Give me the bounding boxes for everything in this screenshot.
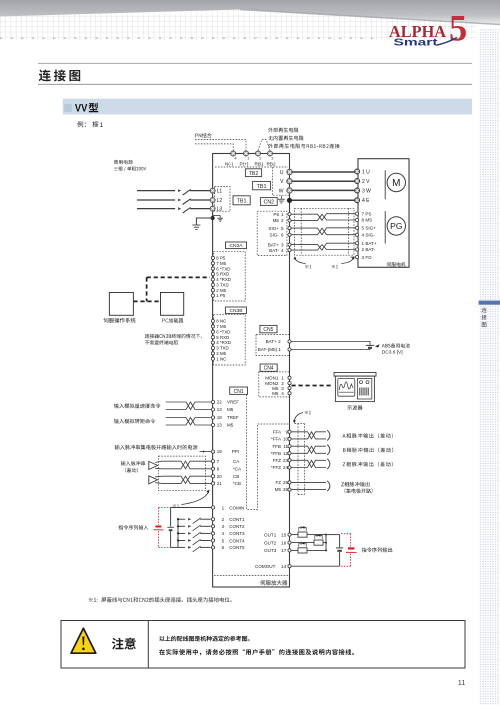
wire U to motor [292, 171, 354, 173]
servo amplifier block outline [213, 154, 290, 588]
brace Z-phase [327, 459, 330, 469]
contact switch CONT4 [178, 540, 185, 542]
svg-text:SIG+: SIG+ [268, 226, 279, 231]
mains label 商用电源 [114, 160, 133, 165]
CN3B pin 2 M5 [211, 352, 214, 355]
svg-text:BAT-(M5) 1: BAT-(M5) 1 [258, 347, 282, 352]
motor encoder pin 1 BAT+ [356, 242, 359, 245]
dashed leader PN to N(-) [195, 144, 233, 151]
CN1 pin 5 CONT4 [211, 539, 214, 542]
svg-text:4: 4 [222, 531, 225, 536]
dashed box around L1 L2 L3 terminals [215, 187, 230, 212]
CN1 label box [230, 387, 248, 394]
note ref 1 (pulse input shield) [173, 504, 179, 507]
svg-text:FFB: FFB [273, 444, 282, 449]
svg-text:7 PS: 7 PS [362, 211, 372, 216]
label PN结合 [196, 133, 212, 138]
svg-text:FFA: FFA [273, 429, 281, 434]
CN3A dashed box [214, 251, 246, 301]
example label 框1 [77, 121, 98, 127]
encoder PG circle [387, 217, 405, 235]
CN1 pin 1 COMIN [211, 506, 214, 509]
svg-text:BAT+ 2: BAT+ 2 [266, 339, 282, 344]
wire E to motor [292, 199, 355, 201]
svg-text:*FFB: *FFB [271, 451, 281, 456]
svg-text:FFZ: FFZ [273, 458, 281, 463]
CN3B pin 7 M5 [211, 325, 214, 328]
svg-text:CONT1: CONT1 [229, 517, 245, 522]
bracket line (motor group) [384, 170, 386, 199]
twisted pair TREF/M5 [166, 418, 212, 426]
svg-text:8 NC: 8 NC [216, 319, 226, 324]
differential driver CB [149, 476, 158, 484]
svg-text:3: 3 [281, 242, 284, 247]
twisted pair FFA/*FFA [291, 432, 326, 439]
svg-text:5: 5 [222, 538, 225, 543]
motor encoder pin 2 BAT- [356, 248, 359, 251]
svg-text:COMOUT: COMOUT [255, 564, 276, 569]
CN4 dashed box [259, 372, 290, 397]
VV-type heading bar [63, 99, 472, 115]
oscilloscope label 示波器 [347, 405, 362, 410]
CN3B note text [145, 334, 202, 339]
wire OUT3 to bus [307, 549, 326, 551]
CN2 dashed connector box [257, 211, 287, 255]
shield inner dashed line left [300, 208, 302, 255]
CN3A pin 8 P5 [211, 256, 214, 259]
wire W to motor [292, 189, 354, 191]
svg-text:M5: M5 [275, 487, 282, 492]
caution label 注意 [112, 638, 136, 650]
earth junction [211, 216, 215, 220]
terminal L1 [210, 188, 215, 193]
svg-text:5: 5 [281, 226, 284, 231]
CN3A pin 2 M5 [211, 289, 214, 292]
ground symbol at E [280, 196, 282, 199]
svg-text:SIG-: SIG- [270, 232, 280, 237]
CN3B pin 4 *RXD [211, 341, 214, 344]
CN1 pin 20 CB [211, 475, 214, 478]
terminal 2 on TB2 [256, 151, 261, 156]
CN3A pin 5 RXD [211, 272, 214, 275]
CN2-PG twisted pair SIG+/SIG- [291, 228, 355, 235]
svg-text:CN5: CN5 [263, 327, 273, 333]
svg-text:8 MS: 8 MS [362, 218, 373, 223]
svg-text:DC3.6 [V]: DC3.6 [V] [382, 350, 403, 356]
svg-text:TB2: TB2 [249, 171, 259, 177]
CN3B pin 3 TXD [211, 346, 214, 349]
battery symbol [366, 344, 374, 346]
internal battery [167, 526, 174, 528]
caution box [61, 621, 465, 669]
svg-text:COMIN: COMIN [229, 505, 244, 510]
svg-text:4 *RXD: 4 *RXD [216, 340, 231, 345]
CN3A pin 6 *TXD [211, 267, 214, 270]
svg-text:6 *TXD: 6 *TXD [216, 266, 230, 271]
svg-text:L2: L2 [217, 198, 223, 204]
CN3B label box [226, 307, 247, 314]
terminal L2 [210, 198, 215, 203]
COMIN bus [170, 508, 172, 527]
svg-text:TB1: TB1 [237, 199, 247, 205]
svg-text:1 NC: 1 NC [216, 356, 226, 361]
pulse input dashed box [158, 456, 205, 491]
dashed leader PN to P(+) [195, 140, 246, 151]
twisted pair CB/*CB [155, 475, 162, 478]
CN2-PG twisted pair BAT+/BAT- [291, 243, 355, 250]
svg-text:M5: M5 [227, 407, 234, 412]
motor encoder pin 3 FG [356, 256, 359, 259]
svg-text:1: 1 [281, 376, 284, 381]
cable shield dashed box [295, 208, 354, 255]
CN1 pin 22 VREF [211, 400, 214, 403]
svg-text:22: 22 [217, 400, 223, 405]
footnote ※1 [89, 597, 232, 602]
output collector bus [325, 535, 327, 551]
contact switch CONT2 [178, 525, 185, 527]
ground symbol (mains earth) [192, 224, 200, 226]
svg-text:Smart: Smart [394, 37, 439, 49]
brace B-phase [327, 445, 330, 455]
svg-text:4: 4 [281, 391, 284, 396]
CN3A pin 4 *RXD [211, 278, 214, 281]
mains switch wire L3 [137, 208, 175, 210]
battery pointer arrow [375, 344, 380, 347]
CN1 pin 13 M5 [211, 423, 214, 426]
serial cable thick dashed [147, 276, 210, 278]
svg-text:OUT3: OUT3 [264, 548, 277, 553]
svg-text:BAT+: BAT+ [268, 242, 280, 247]
sidebar vertical label 连接图 [482, 308, 487, 313]
monitor cable thick dashed [292, 385, 334, 387]
svg-text:2 M5: 2 M5 [216, 351, 226, 356]
svg-text:1: 1 [281, 212, 284, 217]
servo motor block outline [358, 159, 409, 268]
svg-text:2 M5: 2 M5 [216, 288, 226, 293]
svg-text:CB: CB [233, 474, 239, 479]
external supply (red) [155, 526, 161, 528]
shield inner dashed line right [348, 208, 350, 255]
terminal L3 [210, 206, 215, 211]
svg-text:OUT2: OUT2 [264, 540, 277, 545]
svg-text:RB1: RB1 [255, 161, 265, 166]
brace Z-phase open collector [327, 481, 330, 491]
svg-text:2: 2 [259, 155, 262, 160]
CN1 pin 3 CONT2 [211, 525, 214, 528]
svg-text:L3: L3 [217, 207, 223, 213]
svg-text:4: 4 [281, 248, 284, 253]
contact switch CONT5 [178, 546, 185, 548]
CN2 label box [260, 198, 277, 206]
svg-text:3: 3 [222, 524, 225, 529]
svg-text:16: 16 [281, 540, 287, 545]
motor terminal 2 V [355, 179, 360, 184]
note ref 1 left (shield) [305, 265, 311, 268]
svg-text:13: 13 [217, 423, 223, 428]
contact switch CONT3 [178, 532, 185, 534]
note ref 1 right (shield) [332, 265, 338, 268]
svg-text:2: 2 [222, 517, 225, 522]
motor encoder pin 4 SIG- [356, 233, 359, 236]
label 指令序列输入 [119, 525, 149, 530]
right sidebar dotted strip [479, 28, 500, 705]
svg-text:1 P5: 1 P5 [216, 293, 226, 298]
servo amplifier label 伺服放大器 [260, 580, 287, 585]
label 输入模拟转矩命令 [114, 419, 155, 424]
wire V to motor [292, 180, 354, 182]
CN3A label box [226, 242, 247, 249]
svg-text:PPI: PPI [232, 449, 239, 454]
svg-text:1: 1 [247, 155, 250, 160]
svg-text:1: 1 [222, 505, 225, 510]
wire OUT1 [291, 534, 298, 536]
servo motor label 伺服电机 [387, 262, 406, 266]
PC loader box PC加载器 [161, 293, 184, 316]
CN1 pin 13 M5 [211, 408, 214, 411]
svg-text:*FFA: *FFA [271, 437, 281, 442]
CN1 pin 8 *CA [211, 467, 214, 470]
motor M circle [387, 173, 405, 191]
svg-text:3: 3 [271, 155, 274, 160]
svg-text:7 M5: 7 M5 [216, 324, 226, 329]
motor encoder pin 8 MS [356, 218, 359, 221]
svg-text:PG: PG [390, 221, 402, 231]
svg-text:MON1: MON1 [265, 376, 279, 381]
svg-text:3 FG: 3 FG [362, 255, 373, 260]
svg-text:6 *TXD: 6 *TXD [216, 329, 230, 334]
svg-text:1 BAT+: 1 BAT+ [362, 241, 377, 246]
svg-text:U: U [280, 170, 284, 176]
svg-text:CA: CA [233, 459, 239, 464]
CN3B pin 8 NC [211, 319, 214, 322]
battery label ABS备用电池 [382, 343, 410, 347]
warning triangle [71, 628, 96, 653]
FZ/M5 wires [291, 481, 326, 483]
CONT bus [177, 519, 179, 547]
svg-text:VREF: VREF [227, 400, 239, 405]
svg-text:TB1: TB1 [257, 184, 267, 190]
label A相脉冲输出（差动） [343, 433, 393, 438]
svg-text:W: W [279, 188, 284, 194]
svg-text:CONT3: CONT3 [229, 531, 245, 536]
output load OUT3 [298, 548, 307, 553]
CN1 pin 4 CONT3 [211, 532, 214, 535]
CN3B dashed box [214, 315, 246, 365]
svg-text:3 TXD: 3 TXD [216, 346, 228, 351]
CN1 pin 21 *CB [211, 482, 214, 485]
svg-text:CN2: CN2 [264, 200, 274, 206]
label B相脉冲输出（差动） [343, 448, 393, 453]
CN3B pin 6 *TXD [211, 330, 214, 333]
svg-text:CN3B: CN3B [229, 308, 242, 314]
mains switch wire L1 [137, 190, 175, 192]
motor encoder pin 5 SIG+ [356, 226, 359, 229]
motor terminal 3 W [355, 188, 360, 193]
svg-text:*FFZ: *FFZ [271, 465, 281, 470]
svg-text:17: 17 [281, 548, 287, 553]
CN3B pin 5 RXD [211, 336, 214, 339]
svg-text:M5: M5 [273, 218, 280, 223]
external output supply (red) [348, 547, 354, 549]
svg-text:14: 14 [281, 564, 287, 569]
svg-text:CONT2: CONT2 [229, 524, 245, 529]
mains switch wire L2 [137, 199, 175, 201]
wire OUT2 [291, 542, 314, 544]
CN1 pin 2 CONT1 [211, 518, 214, 521]
terminal 1 on TB2 [244, 151, 249, 156]
note ref 1 (output shield) [305, 411, 311, 414]
svg-text:VV: VV [75, 103, 88, 115]
output load OUT2 [314, 540, 323, 545]
wire OUT2 to bus [323, 542, 326, 544]
svg-text:4 SIG-: 4 SIG- [362, 232, 376, 237]
CN1 pin 6 CONT5 [211, 546, 214, 549]
dashed box around U V W terminals [272, 167, 289, 195]
twisted pair VREF/M5 [166, 402, 212, 410]
servo operator box 伺服操作系统 [109, 293, 133, 316]
svg-text:7: 7 [217, 459, 220, 464]
svg-text:5: 5 [449, 7, 467, 48]
svg-text:8 P5: 8 P5 [216, 256, 226, 261]
svg-text:3 W: 3 W [362, 188, 371, 194]
twisted pair FFB/*FFB [291, 446, 326, 453]
TB1 label box (right) [253, 181, 271, 189]
svg-text:6: 6 [281, 232, 284, 237]
output supply battery [339, 535, 341, 548]
terminal 3 on TB2 [268, 151, 273, 156]
svg-text:*CB: *CB [233, 481, 241, 486]
caution text line 2 [159, 649, 354, 655]
svg-text:1: 1 [100, 122, 104, 129]
dashed external-resistor jumper RB1-RB2 [258, 140, 270, 151]
brace A-phase [327, 430, 330, 440]
label 输入模拟量速度命令 [114, 403, 161, 408]
svg-text:1 U: 1 U [362, 169, 370, 175]
svg-text:5 SIG+: 5 SIG+ [362, 226, 377, 231]
bracket line (encoder group) [384, 211, 386, 243]
svg-text:2: 2 [281, 218, 284, 223]
CN1 dashed outline [247, 394, 290, 509]
CN1 pin 18 TREF [211, 416, 214, 419]
svg-text:M: M [392, 178, 400, 189]
backup battery loop [291, 342, 370, 345]
svg-text:2 BAT-: 2 BAT- [362, 247, 376, 252]
svg-text:4: 4 [234, 155, 237, 160]
TB2 label box [245, 169, 261, 177]
label 输入脉冲串(集电极开路)电源 [115, 445, 198, 450]
svg-text:13: 13 [217, 407, 223, 412]
svg-text:3 TXD: 3 TXD [216, 282, 228, 287]
CN3A pin 7 M5 [211, 262, 214, 265]
output load OUT1 [298, 532, 307, 537]
CN1 pin 19 PPI [211, 450, 214, 453]
label 输入脉冲串（差动） [121, 461, 145, 466]
CN2-PG twisted pair P5/M5 [291, 214, 355, 221]
svg-text:15: 15 [281, 532, 287, 537]
svg-text:TREF: TREF [227, 415, 239, 420]
regen resistor option labels [268, 128, 298, 133]
COMOUT wire [291, 565, 339, 567]
motor terminal 1 U [355, 169, 360, 174]
svg-text:19: 19 [217, 449, 223, 454]
svg-text:M5: M5 [227, 423, 234, 428]
svg-text:7 M5: 7 M5 [216, 261, 226, 266]
svg-text:5 RXD: 5 RXD [216, 335, 229, 340]
svg-text:OUT1: OUT1 [264, 532, 277, 537]
svg-text:*CA: *CA [233, 466, 241, 471]
CN3A pin 3 TXD [211, 283, 214, 286]
wire OUT3 [291, 549, 298, 551]
label Z相脉冲输出（集电极开路） [341, 482, 369, 487]
oscilloscope [334, 373, 376, 377]
mains label 三相/单相200V [114, 167, 146, 172]
CN4 label box [260, 364, 277, 371]
terminal E (amp) [287, 198, 292, 203]
svg-text:P(+): P(+) [240, 161, 249, 166]
section title 连接图 [38, 62, 472, 64]
label 指令序列输出 [362, 547, 393, 552]
svg-text:M5: M5 [272, 391, 279, 396]
svg-text:4 E: 4 E [362, 198, 370, 204]
contact switch CONT1 [178, 518, 185, 520]
svg-text:BAT-: BAT- [269, 248, 279, 253]
svg-text:CONT4: CONT4 [229, 538, 245, 543]
svg-text:6: 6 [222, 545, 225, 550]
svg-text:P5: P5 [273, 212, 279, 217]
svg-text:CN3A: CN3A [229, 243, 243, 249]
terminal 4 on TB2 [231, 151, 236, 156]
dashed separator under TB2 terminals [215, 166, 288, 168]
differential driver CA [149, 461, 158, 469]
svg-text:CN1: CN1 [234, 389, 244, 395]
svg-text:V: V [280, 179, 284, 185]
CN3B pin 1 NC [211, 357, 214, 360]
TB1 label box (left) [233, 196, 250, 205]
CN3A pin 1 P5 [211, 294, 214, 297]
svg-text:18: 18 [217, 415, 223, 420]
svg-text:CONT5: CONT5 [229, 545, 245, 550]
svg-text:2 V: 2 V [362, 179, 370, 185]
twisted pair FFZ/*FFZ [291, 460, 326, 467]
ground symbol at chassis terminal [219, 215, 221, 218]
sidebar tab bar [479, 301, 500, 305]
svg-text:4 *RXD: 4 *RXD [216, 277, 231, 282]
svg-text:20: 20 [217, 474, 223, 479]
svg-text:L1: L1 [217, 189, 223, 195]
FG stub wire [351, 256, 356, 258]
PPI wire [200, 451, 212, 453]
label Z相脉冲输出（差动） [343, 462, 393, 467]
caution text line 1 [159, 636, 249, 642]
motor terminal 4 E [355, 198, 360, 203]
twisted pair CA/*CA [155, 461, 162, 462]
svg-text:FZ: FZ [276, 480, 282, 485]
CN5 label box [260, 325, 277, 332]
svg-text:11: 11 [458, 678, 466, 687]
CN5 dashed box [256, 335, 290, 356]
svg-text:CN4: CN4 [264, 366, 274, 372]
motor encoder pin 7 PS [356, 212, 359, 215]
svg-text:21: 21 [217, 481, 223, 486]
svg-text:RB2: RB2 [267, 161, 277, 166]
CN1 pin 7 CA [211, 460, 214, 463]
svg-text:8: 8 [217, 466, 220, 471]
output shield dashed lines [295, 423, 305, 425]
svg-text:N(-): N(-) [225, 161, 234, 166]
svg-text:5 RXD: 5 RXD [216, 272, 229, 277]
ground wire to earth symbol [196, 218, 212, 225]
wire OUT1 to bus [307, 534, 326, 536]
